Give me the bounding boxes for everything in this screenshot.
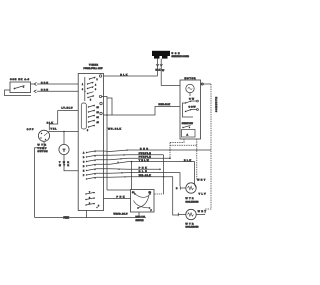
- timer contact group middle: [88, 105, 95, 128]
- svg-text:RED: RED: [140, 148, 148, 150]
- cord wire BLK drop: [157, 59, 159, 76]
- motor bottom rung: [170, 144, 197, 146]
- svg-text:WH/D-BLU: WH/D-BLU: [114, 214, 128, 216]
- svg-text:PUSH-PULL OFF: PUSH-PULL OFF: [84, 68, 104, 70]
- svg-text:TIMER: TIMER: [89, 64, 98, 66]
- right bus vertical: [210, 84, 212, 188]
- svg-text:START SW: START SW: [182, 122, 194, 125]
- hot water solenoid: [186, 183, 196, 193]
- timer contact group bottom: [85, 192, 97, 208]
- cord arrowheads: [156, 64, 162, 66]
- svg-text:TEMP: TEMP: [38, 148, 48, 150]
- svg-text:3: 3: [82, 89, 83, 91]
- wire to level switch: [107, 189, 131, 191]
- bottom wire PNK: [35, 212, 139, 218]
- fan wire PURPLE 2: [96, 158, 170, 160]
- svg-text:LT-BLU: LT-BLU: [62, 108, 73, 110]
- svg-text:OFF: OFF: [27, 129, 34, 131]
- svg-text:4: 4: [95, 85, 96, 87]
- svg-text:2C: 2C: [97, 112, 100, 114]
- svg-text:WH-BLK: WH-BLK: [139, 175, 151, 177]
- svg-text:BLK: BLK: [47, 123, 53, 125]
- connector arrows: [34, 83, 37, 93]
- svg-text:2: 2: [97, 79, 98, 81]
- svg-text:BRN-BLK: BRN-BLK: [159, 104, 171, 106]
- water temp rotary switch: [38, 130, 49, 141]
- motor circle: [186, 84, 194, 92]
- svg-text:WHT: WHT: [198, 211, 207, 213]
- timer box: [78, 74, 103, 211]
- svg-text:PURPLE: PURPLE: [139, 157, 152, 159]
- svg-text:BLK: BLK: [184, 160, 191, 162]
- svg-text:F: F: [83, 175, 85, 177]
- motor internal wire left: [183, 103, 194, 117]
- wire WHT to motor: [161, 85, 180, 87]
- svg-text:SWTCH: SWTCH: [38, 151, 48, 153]
- svg-text:PNK: PNK: [139, 168, 147, 170]
- wire LT-BLU: [49, 111, 78, 131]
- svg-text:SOLENOID: SOLENOID: [186, 227, 199, 229]
- svg-text:PNK: PNK: [64, 217, 69, 220]
- wire BRN upper: [31, 83, 34, 85]
- svg-text:BRN: BRN: [41, 90, 48, 92]
- svg-text:WTR: WTR: [186, 198, 194, 200]
- svg-text:A: A: [83, 152, 85, 155]
- svg-text:T: T: [63, 147, 66, 152]
- svg-text:CON BK 4-5: CON BK 4-5: [10, 78, 30, 81]
- svg-text:9: 9: [89, 203, 90, 205]
- right bus to solenoid2: [205, 188, 211, 215]
- cold water solenoid: [186, 209, 196, 219]
- svg-text:WTR LVL: WTR LVL: [136, 217, 147, 219]
- wire BRN-BLK timer to motor: [104, 107, 181, 116]
- wire YEL rotary to timer: [49, 131, 79, 133]
- svg-text:D: D: [176, 188, 178, 190]
- service cord connector: [152, 51, 170, 59]
- svg-text:5: 5: [87, 130, 88, 132]
- wire motor to right bus: [201, 83, 212, 85]
- timer terminal top right: [99, 75, 101, 77]
- timer motor top wire: [63, 132, 65, 145]
- svg-text:E: E: [83, 171, 85, 173]
- svg-text:1B: 1B: [149, 192, 152, 194]
- timer contact fan group: [86, 151, 96, 180]
- svg-text:YEL: YEL: [51, 129, 58, 131]
- motor wire internal: [189, 93, 191, 96]
- timer pin number marks: [82, 79, 100, 208]
- wire BLK timer to cord: [104, 75, 158, 77]
- svg-text:VLV: VLV: [199, 193, 207, 195]
- svg-text:PNK: PNK: [117, 197, 125, 199]
- svg-text:MOTOR: MOTOR: [185, 78, 196, 80]
- motor box: [180, 80, 201, 139]
- svg-text:A: A: [187, 134, 189, 137]
- lid switch loop wire: [5, 90, 32, 96]
- fan wire BLU to solenoid1 left: [96, 173, 180, 187]
- fan wire YELW to solenoid1: [96, 162, 196, 188]
- timer bottom drop: [86, 211, 88, 218]
- timer terminal mid right 2: [100, 112, 102, 114]
- protector box A: [182, 130, 196, 138]
- rotary bottom wire to pink bus: [35, 141, 44, 217]
- svg-text:3C: 3C: [97, 117, 100, 119]
- fan wire RED: [96, 150, 211, 152]
- start switch contact: [182, 126, 190, 129]
- svg-text:5: 5: [90, 100, 91, 102]
- timer terminal mid right 1: [100, 102, 102, 104]
- water level switch box: [131, 190, 155, 213]
- svg-text:4C: 4C: [97, 122, 100, 124]
- svg-text:SOLENOID: SOLENOID: [186, 201, 199, 203]
- wire WH-BLK vertical: [102, 97, 107, 191]
- motor bottom wire left: [170, 139, 184, 143]
- motor contact CW: [185, 100, 199, 104]
- fan wire PNK: [96, 168, 160, 171]
- motor contact CCW: [185, 109, 199, 113]
- level switch terminals: [134, 193, 151, 209]
- motor top right terminal: [201, 83, 203, 85]
- stub loop wire: [107, 98, 112, 115]
- fan junction dots: [131, 161, 165, 178]
- svg-text:6: 6: [95, 89, 96, 91]
- svg-text:USE: USE: [172, 53, 181, 55]
- svg-text:WTR: WTR: [38, 145, 47, 147]
- svg-text:SERVICE CORD: SERVICE CORD: [172, 56, 190, 58]
- wire BRN lower: [37, 90, 78, 92]
- svg-text:SWTCH: SWTCH: [136, 220, 144, 222]
- svg-text:WH-BLK: WH-BLK: [108, 129, 121, 131]
- svg-text:WHT: WHT: [197, 179, 206, 181]
- svg-text:CW: CW: [189, 98, 195, 100]
- svg-text:B: B: [83, 157, 85, 159]
- svg-text:W: W: [162, 70, 165, 72]
- wire PNK timer to level box: [104, 198, 131, 200]
- lid switch contact: [14, 86, 25, 90]
- svg-text:1C: 1C: [97, 107, 100, 109]
- svg-text:BLU: BLU: [139, 171, 147, 173]
- svg-text:BLK: BLK: [156, 70, 161, 72]
- svg-text:1: 1: [82, 84, 83, 86]
- svg-text:BRN: BRN: [41, 82, 48, 84]
- svg-text:D: D: [83, 166, 85, 168]
- timer contact group top: [84, 77, 95, 98]
- timer cam rect: [81, 103, 86, 129]
- svg-text:BLK: BLK: [120, 74, 127, 76]
- lid switch box CON: [10, 82, 31, 93]
- solenoid2 left tick: [177, 213, 179, 216]
- timer inner rail: [84, 77, 86, 101]
- motor bottom drop wire: [196, 139, 198, 180]
- svg-text:8: 8: [89, 198, 90, 200]
- solenoid1 left tick: [179, 186, 181, 189]
- svg-text:C: C: [83, 162, 85, 164]
- svg-text:WTR: WTR: [186, 223, 194, 225]
- timer motor circle: [59, 144, 69, 154]
- svg-text:CCW: CCW: [189, 107, 197, 109]
- svg-text:7: 7: [89, 192, 90, 194]
- svg-text:P: P: [98, 206, 100, 208]
- timer motor bottom wire: [64, 155, 78, 171]
- svg-text:PURPLE: PURPLE: [139, 153, 152, 155]
- timer terminal right y96: [99, 95, 101, 97]
- fan wire WH-BLK to solenoid2: [96, 177, 178, 215]
- svg-text:HARNESS: HARNESS: [215, 97, 218, 113]
- fan wire PURPLE 1: [96, 154, 164, 157]
- solenoid2 right wire: [196, 214, 205, 216]
- wire YELW drop to level box: [131, 162, 133, 190]
- level switch curves: [136, 195, 150, 198]
- cord wire WHT drop: [160, 59, 162, 86]
- motor bottom wire left drop: [169, 143, 171, 159]
